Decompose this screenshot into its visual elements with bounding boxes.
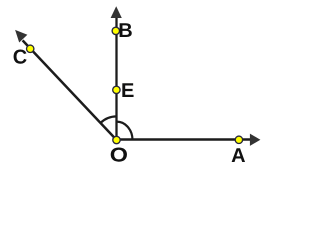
svg-text:E: E	[121, 80, 134, 102]
ray OA (horizontal wire segment)	[117, 138, 251, 141]
ray OC (diagonal wire segment)	[23, 40, 117, 140]
svg-text:A: A	[231, 145, 245, 167]
point E dot	[113, 86, 120, 93]
svg-text:B: B	[118, 20, 132, 42]
angle arc EOA (small arc)	[117, 122, 133, 140]
point B dot	[112, 27, 119, 34]
svg-text:O: O	[110, 144, 128, 166]
arrowhead of ray OA	[250, 134, 261, 146]
point A dot	[235, 136, 242, 143]
ray OB (vertical wire segment)	[115, 17, 117, 140]
svg-text:C: C	[13, 47, 27, 69]
arrowhead of ray OB	[111, 6, 122, 18]
point C dot	[27, 45, 34, 52]
point O (vertex dot)	[113, 136, 120, 143]
arrowhead of ray OC	[15, 30, 27, 43]
angle arc COE (large arc)	[101, 116, 117, 123]
